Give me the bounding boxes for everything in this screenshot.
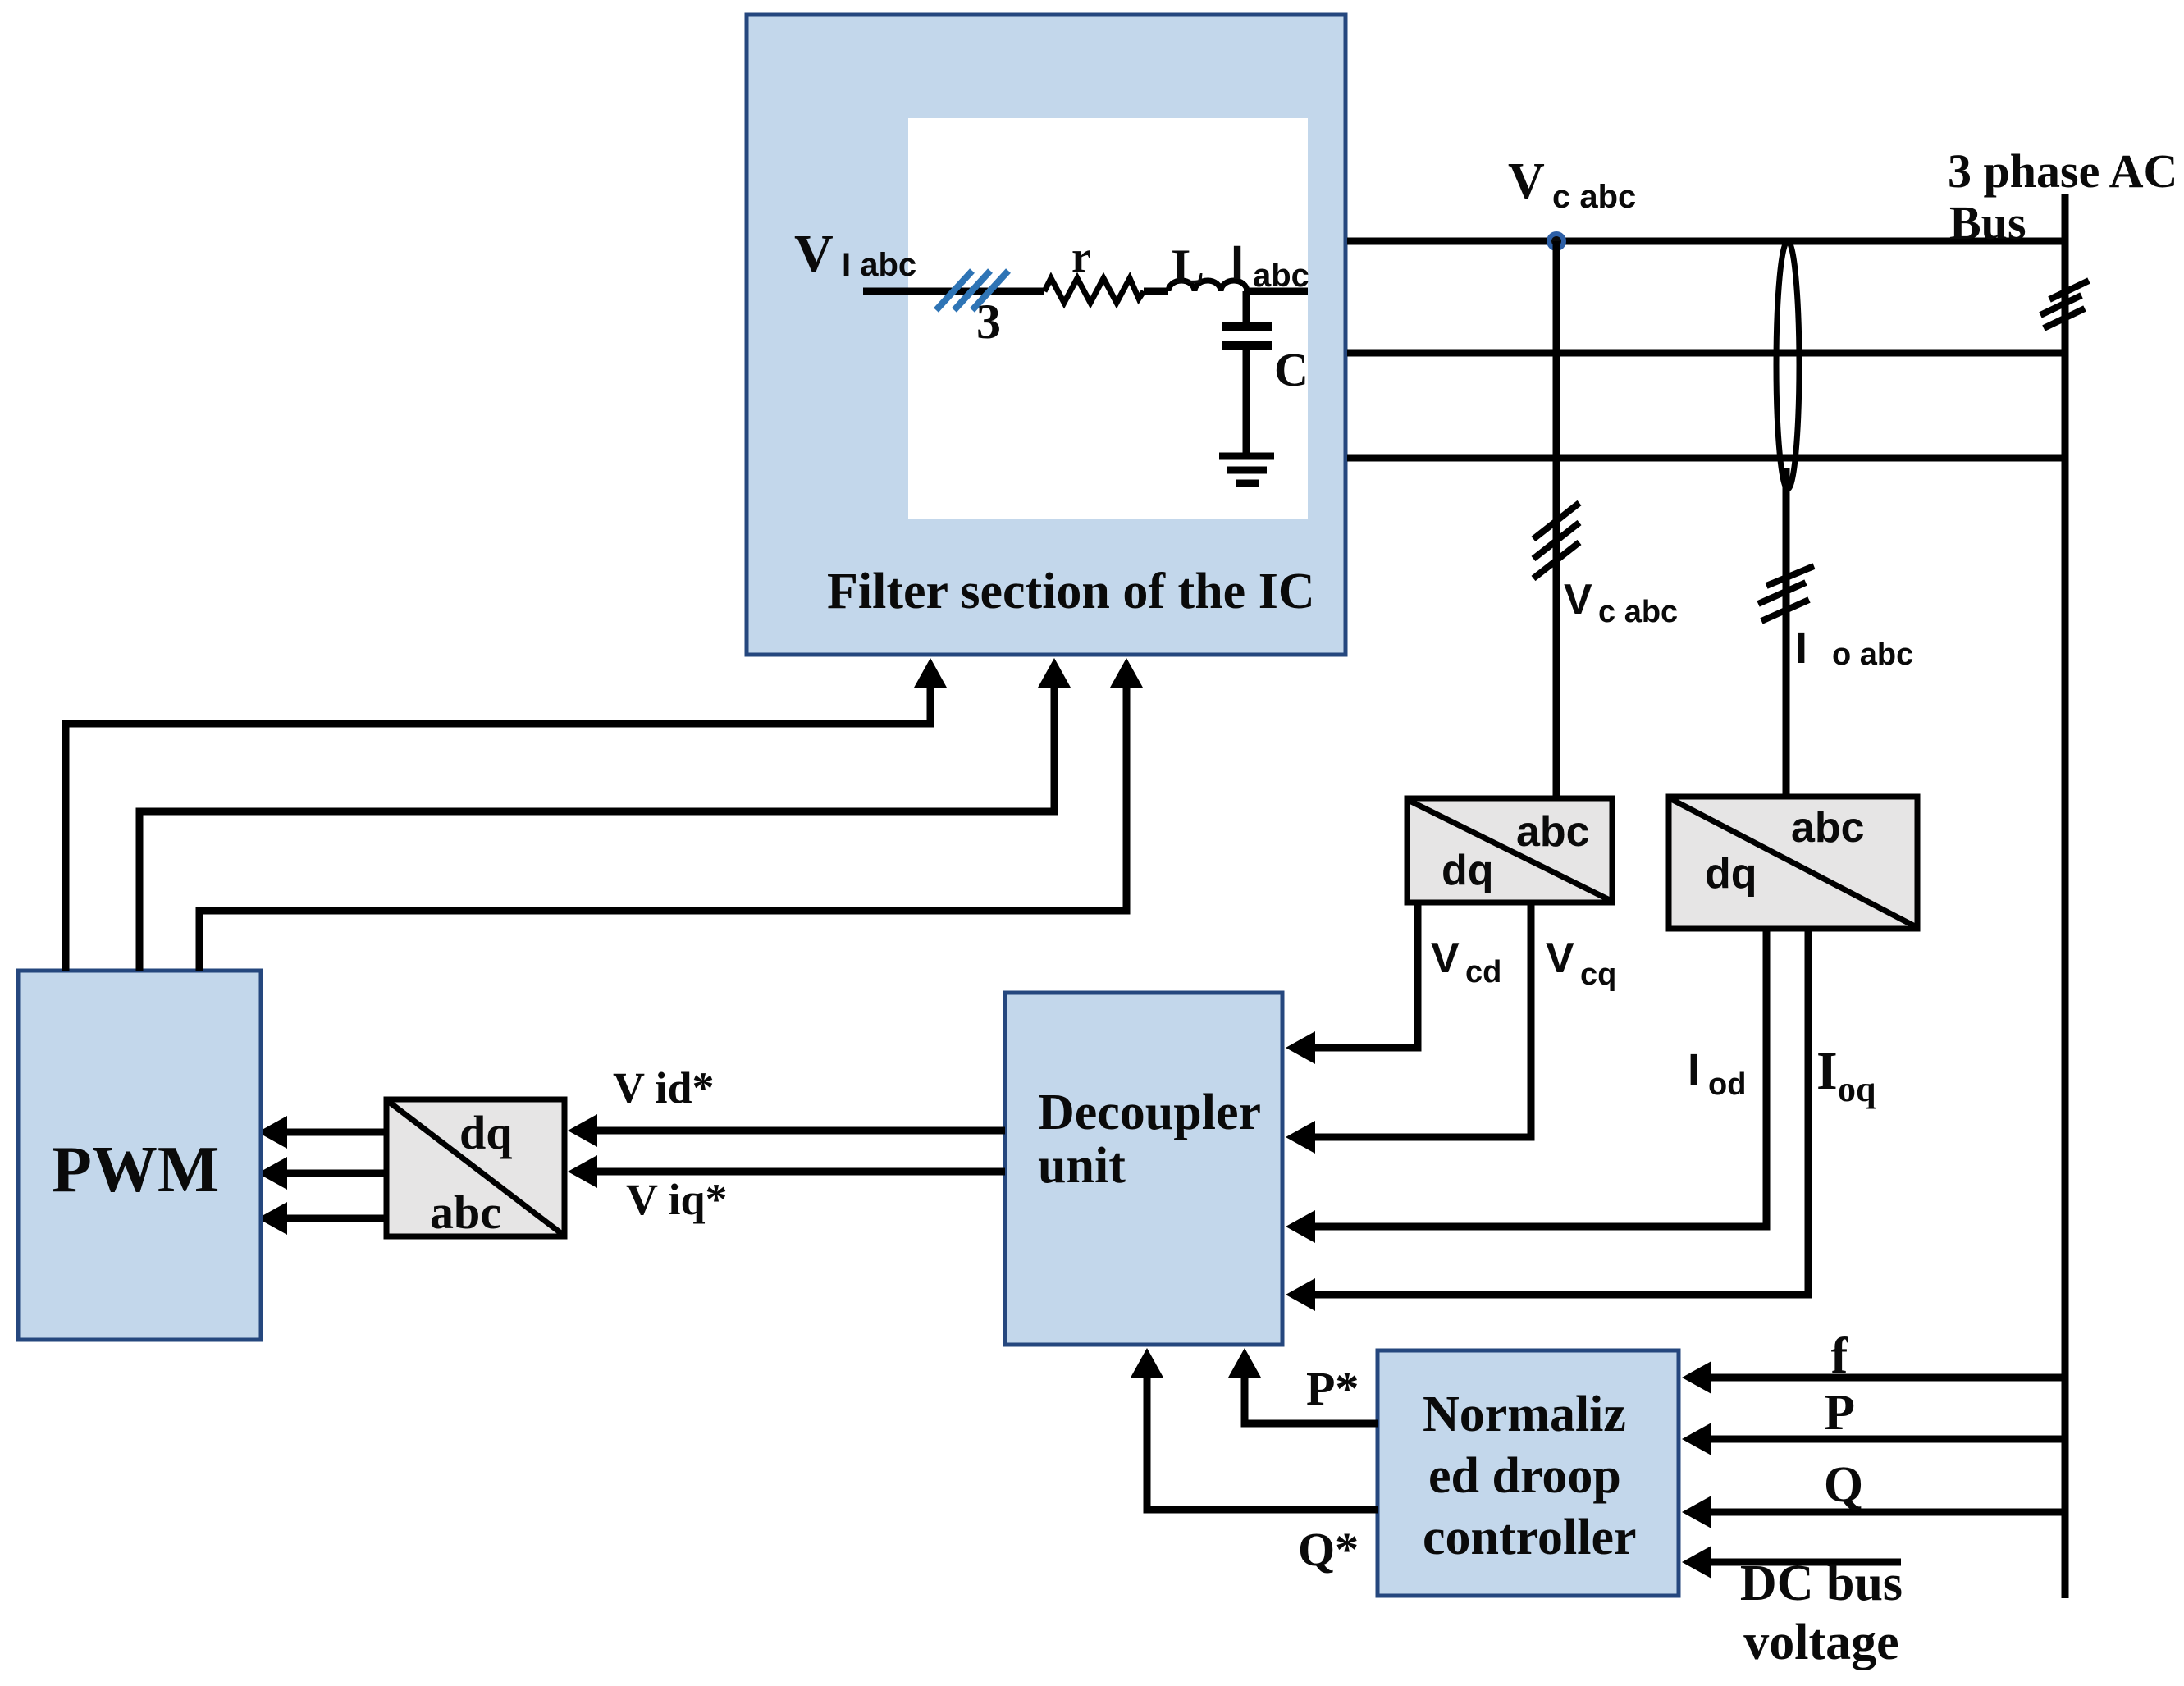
bus line 2 <box>1347 350 2068 357</box>
svg-text:I: I <box>1688 1045 1700 1094</box>
svg-text:abc: abc <box>430 1186 501 1239</box>
svg-text:I: I <box>1816 1041 1838 1101</box>
capacitor C <box>1222 291 1309 453</box>
3 phase AC bus vertical <box>2062 194 2069 1598</box>
bus line 3 <box>1347 455 2068 462</box>
svg-text:C: C <box>1274 343 1309 396</box>
wire Iod <box>1313 929 1766 1227</box>
svg-text:V id*: V id* <box>613 1063 715 1113</box>
wire inductor to output <box>1244 288 1308 295</box>
PWM feedback wire 3 <box>199 688 1126 971</box>
label Iod <box>1688 1045 1746 1102</box>
svg-text:DC bus: DC bus <box>1740 1556 1903 1611</box>
label Vc abc (top) <box>1508 153 1636 215</box>
wire f <box>1708 1374 2065 1382</box>
abc/dq box 2 (current) <box>1669 797 1917 929</box>
wire Q <box>1708 1509 2065 1516</box>
svg-text:unit: unit <box>1038 1138 1126 1194</box>
label I abc <box>1231 236 1309 294</box>
svg-text:Bus: Bus <box>1949 196 2026 249</box>
svg-text:od: od <box>1708 1067 1746 1102</box>
svg-text:c abc: c abc <box>1552 179 1636 215</box>
svg-text:Filter section of the IC: Filter section of the IC <box>827 564 1315 619</box>
wire V_I to filter input <box>863 288 1044 295</box>
PWM feedback wire 1 <box>66 688 930 971</box>
label Vcd <box>1431 934 1501 989</box>
svg-text:cd: cd <box>1465 955 1501 989</box>
label Ioq <box>1816 1041 1876 1109</box>
wire P <box>1708 1436 2065 1443</box>
wire dq/abc to PWM phase a <box>287 1129 386 1136</box>
3-phase slash marks (blue) <box>936 271 1008 310</box>
svg-text:Q*: Q* <box>1298 1523 1359 1576</box>
arrow 2 into filter <box>1038 658 1071 688</box>
wire V id* <box>594 1127 1005 1135</box>
svg-text:f: f <box>1831 1328 1849 1384</box>
svg-text:I: I <box>1795 624 1807 673</box>
label Io abc <box>1795 624 1913 673</box>
slash marks on Io wire <box>1758 566 1814 621</box>
svg-text:c abc: c abc <box>1598 595 1678 629</box>
node Vc abc (dot) <box>1549 234 1564 249</box>
node V_I abc label <box>794 224 916 284</box>
svg-text:controller: controller <box>1423 1510 1637 1565</box>
filter section box <box>747 15 1346 655</box>
arrow Iod into decoupler <box>1286 1210 1315 1243</box>
arrow P* into decoupler bottom <box>1228 1348 1261 1378</box>
svg-text:V iq*: V iq* <box>626 1175 728 1224</box>
ground <box>1219 456 1274 483</box>
wire Vcd <box>1313 902 1418 1048</box>
slash marks on Vc wire <box>1533 503 1579 578</box>
wire dq/abc to PWM phase b <box>287 1170 386 1177</box>
arrow Q* into decoupler bottom <box>1131 1348 1163 1378</box>
abc/dq box 1 (voltage) <box>1407 798 1612 902</box>
PWM feedback wire 2 <box>139 688 1054 971</box>
svg-text:V: V <box>1431 934 1460 982</box>
wire Q* <box>1147 1378 1378 1510</box>
svg-text:Normaliz: Normaliz <box>1423 1387 1626 1442</box>
wire P* <box>1245 1378 1378 1423</box>
arrow 3 into filter <box>1110 658 1143 688</box>
arrow into PWM phase b <box>258 1157 287 1190</box>
arrow into PWM phase a <box>258 1116 287 1149</box>
bus line 1 <box>1347 238 2068 245</box>
svg-text:ed droop: ed droop <box>1428 1448 1621 1504</box>
svg-text:voltage: voltage <box>1743 1615 1898 1670</box>
svg-text:oq: oq <box>1838 1069 1876 1109</box>
arrow 1 into filter <box>914 658 947 688</box>
PWM box <box>18 971 261 1340</box>
label 3 phase AC Bus <box>1948 144 2177 249</box>
label DC bus voltage <box>1740 1556 1903 1670</box>
svg-text:dq: dq <box>1705 850 1757 898</box>
svg-text:I abc: I abc <box>842 247 916 283</box>
label Vcq <box>1546 934 1616 992</box>
svg-text:P*: P* <box>1306 1362 1359 1415</box>
svg-text:abc: abc <box>1253 258 1309 294</box>
arrow Ioq into decoupler <box>1286 1278 1315 1311</box>
wire DC bus voltage <box>1708 1559 1901 1566</box>
wire Ioq <box>1313 929 1808 1295</box>
svg-text:dq: dq <box>1442 847 1494 894</box>
arrow V id* into dq/abc box <box>568 1114 597 1147</box>
svg-text:3 phase AC: 3 phase AC <box>1948 144 2177 198</box>
wire resistor to inductor <box>1144 288 1168 295</box>
current measuring ellipse <box>1776 241 1799 489</box>
svg-text:I: I <box>1231 236 1244 290</box>
svg-text:P: P <box>1824 1385 1855 1441</box>
svg-text:PWM: PWM <box>52 1134 219 1206</box>
svg-text:Q: Q <box>1824 1457 1863 1513</box>
svg-text:r: r <box>1071 232 1091 281</box>
wire Io vertical <box>1783 468 1790 795</box>
label Vc abc (lower) <box>1564 576 1678 629</box>
svg-text:cq: cq <box>1580 957 1616 992</box>
svg-text:o abc: o abc <box>1832 637 1913 672</box>
arrow V iq* into dq/abc box <box>568 1155 597 1188</box>
svg-text:abc: abc <box>1516 808 1590 856</box>
arrow Vcd into decoupler <box>1286 1031 1315 1064</box>
wire dq/abc to PWM phase c <box>287 1215 386 1222</box>
svg-text:V: V <box>1546 934 1574 982</box>
decoupler unit box <box>1005 993 1282 1345</box>
svg-text:V: V <box>1508 153 1545 209</box>
bus slash marks <box>2040 281 2089 328</box>
svg-text:V: V <box>794 224 834 284</box>
svg-text:dq: dq <box>459 1106 513 1159</box>
resistor r <box>1044 278 1144 303</box>
wire Vcq <box>1313 902 1531 1137</box>
svg-text:3: 3 <box>976 295 1001 349</box>
svg-text:Decoupler: Decoupler <box>1038 1085 1261 1140</box>
svg-text:L: L <box>1172 240 1204 294</box>
normalized droop controller box <box>1378 1350 1679 1596</box>
svg-text:abc: abc <box>1791 804 1865 852</box>
wire V iq* <box>594 1168 1005 1176</box>
dq/abc box 3 <box>386 1099 564 1239</box>
arrow into PWM phase c <box>258 1202 287 1235</box>
svg-text:V: V <box>1564 576 1592 624</box>
inductor L <box>1168 281 1247 291</box>
wire Vc tap vertical <box>1553 241 1560 797</box>
arrow Vcq into decoupler <box>1286 1121 1315 1154</box>
